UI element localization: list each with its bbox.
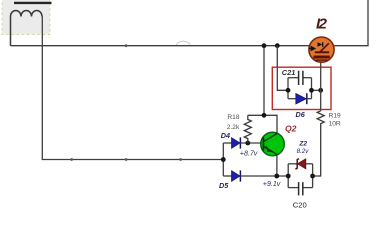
svg-text:R19: R19 — [329, 112, 341, 119]
svg-text:8.2v: 8.2v — [297, 148, 310, 155]
svg-text:Q2: Q2 — [285, 124, 297, 134]
svg-text:C21: C21 — [282, 68, 296, 77]
svg-text:Z2: Z2 — [298, 141, 307, 148]
svg-text:+8.7v: +8.7v — [240, 149, 258, 157]
svg-text:D6: D6 — [296, 110, 306, 119]
svg-text:10R: 10R — [329, 120, 341, 127]
svg-text:R18: R18 — [227, 114, 239, 121]
svg-text:D4: D4 — [221, 131, 230, 140]
svg-text:2.2k: 2.2k — [227, 124, 240, 131]
svg-text:I2: I2 — [316, 16, 328, 33]
svg-text:C20: C20 — [293, 200, 307, 209]
svg-text:D5: D5 — [219, 181, 229, 190]
svg-text:+9.1v: +9.1v — [263, 180, 281, 188]
